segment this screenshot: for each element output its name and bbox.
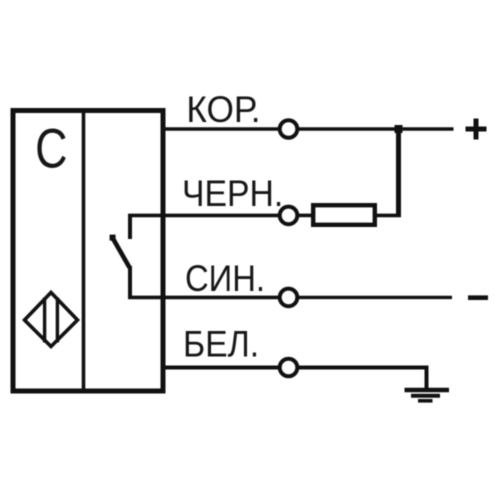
svg-text:ЧЕРН.: ЧЕРН. [182, 172, 283, 214]
svg-text:C: C [35, 117, 67, 180]
svg-text:КОР.: КОР. [186, 88, 260, 130]
svg-text:СИН.: СИН. [185, 258, 265, 300]
svg-text:БЕЛ.: БЕЛ. [183, 323, 259, 365]
